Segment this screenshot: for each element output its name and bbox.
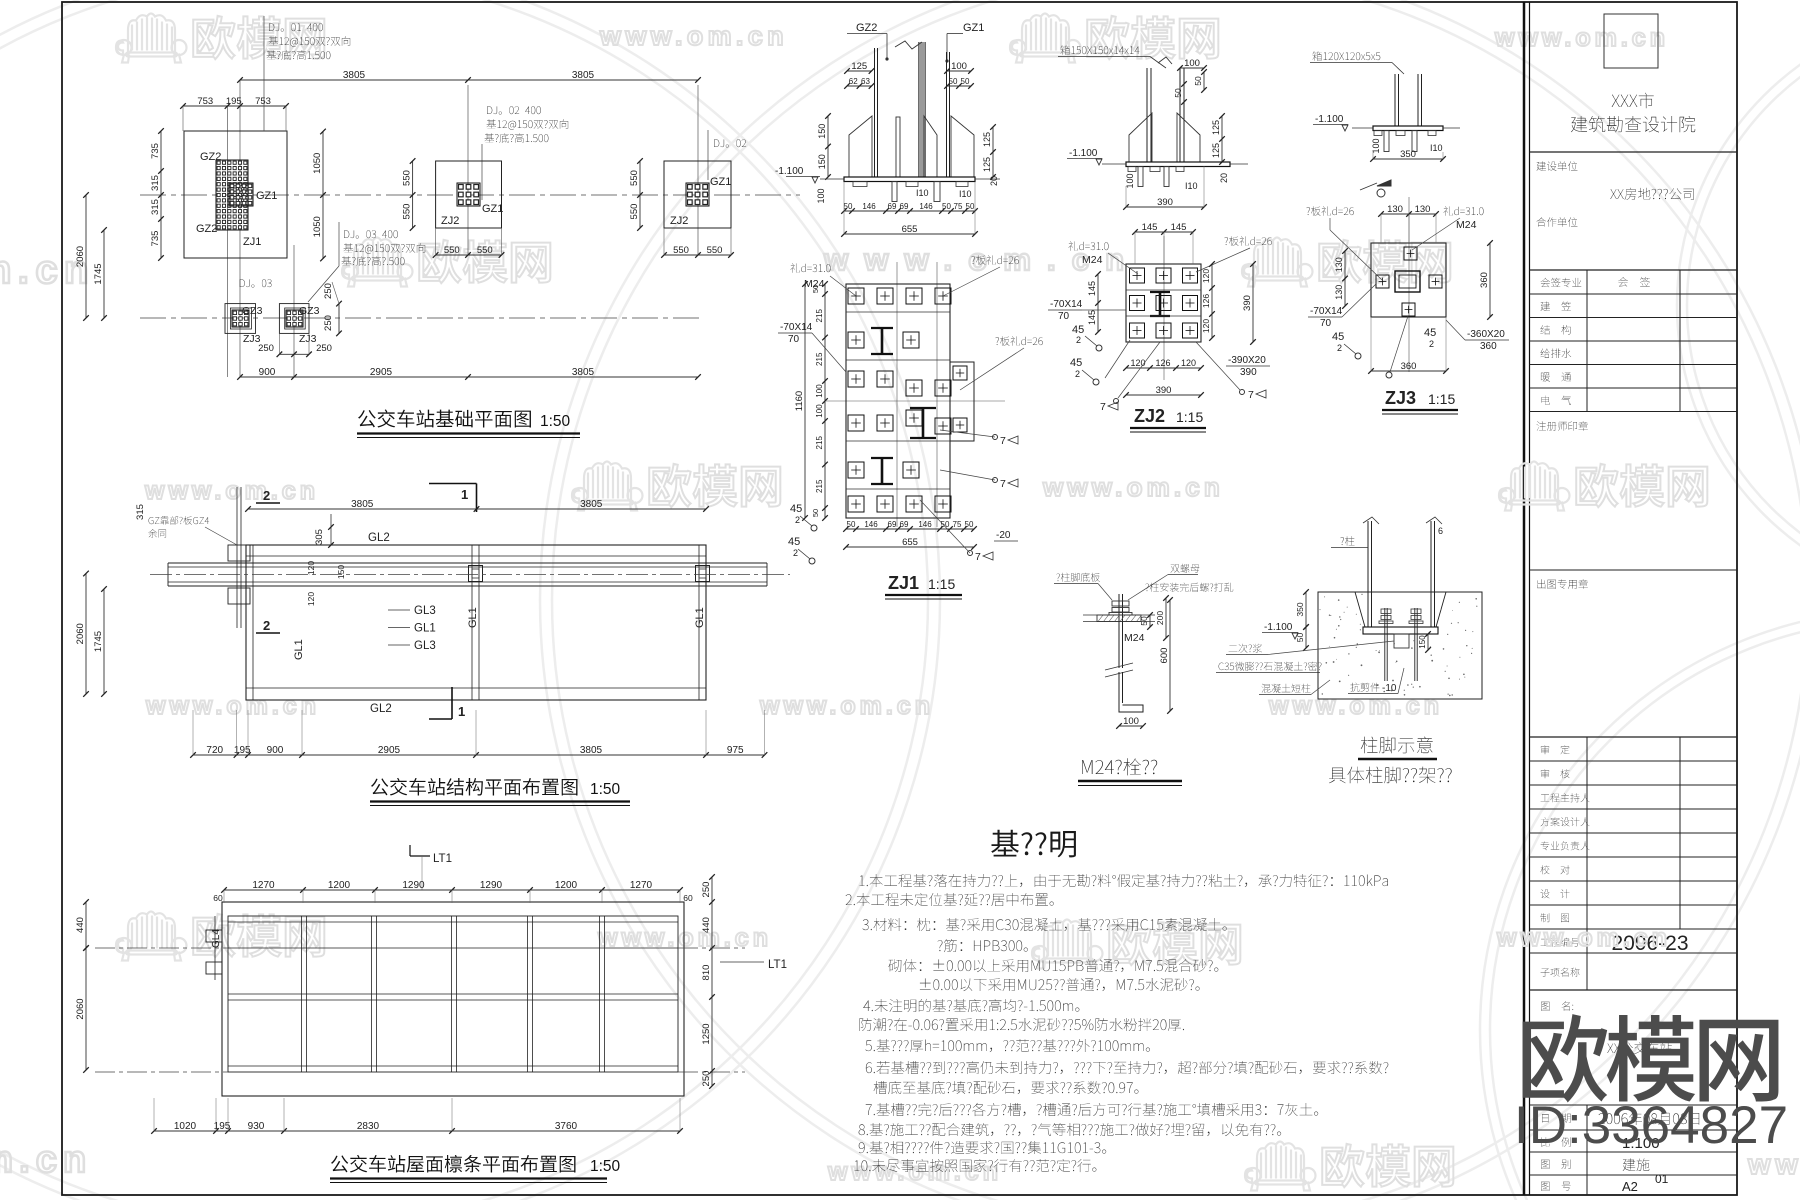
column shafts elevation2	[1146, 68, 1148, 162]
svg-text:www.om.cn: www.om.cn	[144, 477, 319, 505]
dim 350 ZJ3	[1373, 158, 1443, 160]
svg-text:2060: 2060	[75, 998, 86, 1019]
svg-text:130: 130	[1334, 257, 1344, 272]
svg-text:146: 146	[864, 520, 878, 529]
stiffener plates elevation1	[849, 116, 872, 177]
svg-text:735: 735	[150, 231, 161, 247]
svg-text:GL1: GL1	[694, 607, 706, 628]
foundation plan axis line horizontal main	[140, 194, 800, 196]
watermark logo mid-left	[572, 462, 643, 511]
svg-text:45: 45	[790, 503, 802, 515]
main GL beam strip	[168, 562, 767, 564]
svg-text:3805: 3805	[572, 70, 595, 81]
svg-text:50: 50	[942, 202, 951, 211]
note line 4	[938, 939, 1028, 952]
foundation pad ZJ3 left	[225, 304, 256, 334]
ZJ1 axis lines	[896, 262, 898, 527]
svg-text:-1.100: -1.100	[1315, 114, 1344, 125]
svg-text:7: 7	[1000, 435, 1006, 447]
svg-text:50: 50	[965, 520, 974, 529]
svg-text:550: 550	[707, 245, 723, 256]
subproject row	[1541, 968, 1580, 977]
approval rows	[1530, 760, 1738, 762]
svg-text:2: 2	[263, 488, 270, 503]
base plate ZJ3 elevation	[1373, 126, 1443, 131]
svg-text:1: 1	[461, 487, 468, 502]
rod lower part and foot	[1118, 672, 1120, 705]
foundation title underline	[357, 432, 580, 434]
svg-text:390: 390	[1240, 367, 1257, 378]
svg-text:195: 195	[226, 96, 242, 107]
svg-text:-10: -10	[1382, 683, 1397, 694]
svg-text:100: 100	[815, 404, 824, 418]
grout pocket	[1394, 634, 1409, 648]
svg-text:1050: 1050	[312, 153, 323, 174]
subtitle 具体柱脚	[1329, 767, 1452, 784]
concrete footing block	[1318, 592, 1482, 699]
svg-text:70: 70	[788, 334, 800, 345]
svg-text:45: 45	[788, 536, 800, 548]
svg-text:145: 145	[1142, 222, 1158, 233]
note line 5	[888, 959, 1218, 972]
dim 753 195 753	[183, 105, 286, 107]
svg-text:69: 69	[888, 202, 897, 211]
svg-text:735: 735	[150, 143, 161, 159]
svg-text:60: 60	[213, 893, 223, 903]
foundation pad ZJ2 middle	[436, 161, 502, 228]
drawing name row	[1541, 1001, 1573, 1010]
svg-text:120: 120	[1201, 319, 1211, 333]
note line 11	[874, 1081, 1139, 1094]
svg-text:3805: 3805	[343, 70, 366, 81]
svg-text:75: 75	[953, 520, 962, 529]
svg-text:7: 7	[1248, 389, 1254, 401]
LT1 top label	[410, 855, 430, 857]
svg-text:www.om.cn: www.om.cn	[599, 21, 788, 51]
label 二次灌浆	[1229, 644, 1262, 653]
svg-text:1160: 1160	[794, 391, 805, 411]
svg-text:GZ1: GZ1	[482, 203, 503, 215]
svg-text:1270: 1270	[630, 880, 653, 891]
svg-text:1:15: 1:15	[1428, 391, 1455, 407]
svg-text:A2: A2	[1622, 1179, 1638, 1194]
svg-text:2: 2	[1429, 339, 1434, 349]
svg-text:GL1: GL1	[293, 639, 305, 660]
svg-text:550: 550	[629, 204, 640, 220]
svg-text:50: 50	[1193, 76, 1203, 86]
svg-text:810: 810	[701, 965, 712, 981]
dim 550 550 left of right pad	[639, 161, 641, 228]
ZJ1 1160 dim	[804, 284, 806, 518]
watermark logo top-left	[116, 14, 187, 63]
svg-text:3805: 3805	[580, 499, 603, 510]
svg-text:GZ2: GZ2	[196, 223, 217, 235]
ZJ3 bottom dim 360	[1371, 370, 1446, 372]
dim 550 550 left of mid pad	[412, 161, 414, 228]
column shafts elevation1	[874, 48, 876, 177]
purlin right dims	[711, 877, 713, 1086]
svg-text:125: 125	[982, 157, 992, 172]
note line 13	[859, 1123, 1282, 1136]
svg-text:315: 315	[150, 175, 161, 191]
svg-text:146: 146	[919, 202, 933, 211]
svg-text:M24: M24	[1456, 219, 1477, 231]
svg-text:930: 930	[248, 1121, 265, 1132]
svg-text:1745: 1745	[93, 263, 104, 284]
note line 12	[866, 1103, 1318, 1116]
svg-text:ZJ2: ZJ2	[441, 215, 459, 227]
text block DJ02 400	[487, 106, 541, 114]
svg-text:215: 215	[815, 309, 824, 323]
dim 100 foot	[1119, 725, 1143, 727]
svg-text:GL2: GL2	[368, 532, 390, 544]
svg-text:550: 550	[477, 245, 493, 256]
svg-text:1050: 1050	[312, 216, 323, 237]
svg-text:145: 145	[1087, 281, 1097, 296]
svg-text:550: 550	[402, 170, 413, 186]
svg-text:1: 1	[458, 704, 465, 719]
svg-text:-70X14: -70X14	[1310, 306, 1343, 317]
title block divider double line	[1523, 2, 1526, 1195]
svg-text:50: 50	[1295, 633, 1305, 643]
purlin axis dashes	[95, 947, 228, 949]
label 柱	[1340, 536, 1354, 545]
svg-text:20: 20	[989, 176, 999, 186]
svg-text:1:50: 1:50	[540, 413, 571, 430]
steel column shafts	[1367, 521, 1369, 627]
svg-text:ZJ2: ZJ2	[670, 215, 688, 227]
watermark logo left-lower	[116, 912, 187, 961]
svg-text:1:50: 1:50	[590, 781, 621, 798]
svg-text:900: 900	[259, 367, 276, 378]
svg-text:125: 125	[1211, 120, 1221, 135]
svg-text:www.om.cn: www.om.cn	[1268, 692, 1443, 720]
ZJ3 leader to bottom bolt	[1390, 316, 1408, 372]
bolts ZJ3 elevation	[1384, 131, 1389, 152]
svg-text:7: 7	[1000, 478, 1006, 490]
svg-text:GZ1: GZ1	[256, 190, 277, 202]
svg-text:2060: 2060	[75, 623, 86, 644]
svg-text:50: 50	[811, 509, 820, 517]
purlin title underline	[330, 1177, 607, 1179]
dim 150 150 left	[827, 116, 829, 177]
svg-text:-70X14: -70X14	[1050, 299, 1083, 310]
svg-text:100: 100	[1125, 173, 1135, 188]
svg-text:350: 350	[1400, 149, 1416, 160]
svg-text:50: 50	[847, 520, 856, 529]
svg-text:GL2: GL2	[370, 703, 392, 715]
svg-text:75: 75	[954, 202, 963, 211]
ZJ2 right dims	[1211, 264, 1213, 338]
watermark logo row2-right	[1242, 238, 1313, 287]
svg-text:www.om.cn: www.om.cn	[1042, 472, 1224, 502]
strip column connection plates	[469, 566, 483, 582]
svg-text:215: 215	[815, 436, 824, 450]
ZJ3 axis line	[1408, 197, 1410, 372]
label C35微膨胀石混凝土密实	[1219, 662, 1322, 671]
note line 7	[863, 999, 1079, 1012]
svg-text:350: 350	[1295, 602, 1305, 616]
ZJ3 texts	[1306, 206, 1353, 215]
structure plan outer rect	[246, 545, 706, 700]
svg-text:-1.100: -1.100	[775, 166, 804, 177]
svg-text:130: 130	[1334, 285, 1344, 300]
svg-text:ZJ2: ZJ2	[1134, 406, 1165, 426]
svg-text:250: 250	[323, 315, 334, 331]
leader DJ03	[338, 222, 340, 266]
GZ2/GZ1 column cluster in ZJ1	[216, 160, 248, 230]
ZJ3 top dim 130 130	[1381, 213, 1436, 215]
ZJ1 base plate outline	[846, 284, 950, 518]
foundation far left dims 2060 1745	[85, 195, 87, 318]
svg-text:63: 63	[861, 77, 870, 86]
foundation title 公交车站基础平面图	[358, 409, 531, 427]
dim 390 elevation2	[1126, 206, 1204, 208]
svg-text:50: 50	[1173, 88, 1183, 98]
watermark logo bottom-right	[1245, 1142, 1316, 1191]
note line 1	[859, 874, 1387, 887]
M24 title	[1082, 758, 1157, 775]
dim 655	[844, 233, 975, 235]
bolts elevation2	[1138, 167, 1143, 187]
svg-text:www.om.cn: www.om.cn	[759, 692, 934, 720]
ZJ3 right dim 360	[1489, 243, 1491, 317]
svg-text:7: 7	[1100, 401, 1106, 413]
GL4 bracket	[206, 930, 222, 942]
svg-text:315: 315	[135, 504, 146, 520]
leader GZ2	[847, 33, 887, 35]
foundation plan axis line ZJ3 row	[140, 317, 700, 319]
svg-text:126: 126	[1155, 358, 1170, 368]
structure top dim 3805 3805	[248, 508, 706, 510]
svg-text:130: 130	[1415, 204, 1431, 215]
svg-text:3805: 3805	[580, 745, 603, 756]
svg-text:6: 6	[1438, 526, 1443, 536]
svg-text:150: 150	[817, 124, 827, 139]
label 混凝土短柱	[1262, 684, 1311, 693]
purlin plan outer rect	[222, 902, 684, 1096]
base plate elevation1	[844, 177, 975, 182]
svg-text:100: 100	[951, 61, 967, 72]
beam strip centerline	[150, 574, 790, 576]
dims 100 50 50 elevation2	[1180, 67, 1204, 69]
project number row	[1541, 938, 1580, 947]
svg-text:655: 655	[902, 537, 918, 548]
svg-text:100: 100	[1123, 716, 1139, 727]
svg-text:I10: I10	[916, 188, 929, 198]
svg-text:50: 50	[1139, 616, 1149, 626]
leader DJ01	[263, 16, 265, 131]
section marker 1 lower	[451, 687, 453, 719]
svg-text:120: 120	[306, 561, 316, 575]
svg-text:753: 753	[197, 96, 213, 107]
purlin inner frame	[228, 916, 678, 1072]
svg-text:1270: 1270	[252, 880, 275, 891]
svg-text:45: 45	[1070, 357, 1082, 369]
foundation pad ZJ2 right	[664, 161, 731, 228]
title block 合作单位 row	[1537, 217, 1578, 226]
ZJ1 anchor squares	[848, 288, 864, 304]
svg-text:1:15: 1:15	[928, 576, 955, 592]
svg-text:2830: 2830	[357, 1121, 380, 1132]
svg-text:GZ1: GZ1	[710, 176, 731, 188]
leader GZ1	[947, 33, 963, 35]
svg-text:70: 70	[1058, 311, 1070, 322]
svg-text:3805: 3805	[572, 367, 595, 378]
label 抗剪件-10	[1350, 683, 1379, 692]
label 柱脚底板	[1056, 573, 1099, 582]
svg-text:GZ2: GZ2	[856, 22, 877, 34]
svg-text:-20: -20	[996, 530, 1011, 541]
ZJ1 leaders and small texts	[790, 263, 830, 272]
svg-text:GZ3: GZ3	[242, 305, 263, 317]
ZJ2 inner seams	[1126, 289, 1201, 291]
svg-text:50: 50	[844, 202, 853, 211]
svg-text:20: 20	[1219, 173, 1229, 183]
svg-text:1290: 1290	[480, 880, 503, 891]
note line 15	[854, 1159, 1096, 1172]
dim 550 550 below right pad	[664, 254, 731, 256]
svg-text:390: 390	[1156, 385, 1172, 396]
dims 50 200	[1149, 615, 1151, 627]
ZJ2 left dim 145 145	[1097, 274, 1099, 332]
svg-text:600: 600	[1159, 648, 1170, 664]
svg-text:100: 100	[815, 384, 824, 398]
svg-text:GL3: GL3	[414, 605, 436, 617]
GZ4 note	[149, 516, 210, 525]
svg-text:2060: 2060	[75, 246, 86, 267]
svg-text:655: 655	[902, 224, 918, 235]
svg-text:GZ2: GZ2	[200, 151, 221, 163]
labels GL3 GL1 GL3 stack	[388, 609, 410, 611]
svg-text:550: 550	[629, 170, 640, 186]
svg-text:69: 69	[900, 520, 909, 529]
purlin horizontal members	[228, 921, 678, 923]
svg-text:3805: 3805	[351, 499, 374, 510]
svg-text:GZ3: GZ3	[299, 305, 320, 317]
svg-text:62: 62	[849, 77, 858, 86]
dims 100 / 50 50	[947, 70, 971, 72]
svg-text:1020: 1020	[174, 1121, 197, 1132]
date scale rows	[1542, 1113, 1571, 1122]
label 安装完后螺栓打乱	[1145, 583, 1233, 592]
svg-text:1:15: 1:15	[1176, 409, 1203, 425]
svg-text:50: 50	[966, 202, 975, 211]
ZJ2 I beam symbol	[1150, 291, 1170, 293]
svg-text:www.om.cn: www.om.cn	[1496, 924, 1671, 952]
ZJ1 I-beam symbols	[871, 327, 893, 329]
svg-text:2: 2	[795, 515, 800, 525]
purlin left dims	[85, 902, 87, 948]
ZJ1 left dim chain	[824, 284, 826, 518]
ZJ2 bottom dims	[1126, 367, 1201, 369]
signature table	[1530, 293, 1738, 295]
column shafts ZJ3 elevation	[1394, 74, 1396, 126]
svg-text:60: 60	[683, 893, 693, 903]
svg-text:GL3: GL3	[414, 640, 436, 652]
svg-text:om.cn: om.cn	[0, 1139, 92, 1181]
svg-text:I10: I10	[1185, 181, 1198, 191]
svg-text:900: 900	[267, 745, 284, 756]
note line 3	[862, 918, 1226, 931]
note line 9	[865, 1039, 1150, 1052]
svg-text:2905: 2905	[378, 745, 401, 756]
chop area label	[1537, 579, 1588, 589]
text block DJ03 400	[344, 230, 398, 238]
svg-text:100: 100	[1371, 138, 1381, 153]
note line 14	[859, 1141, 1106, 1154]
svg-text:146: 146	[918, 520, 932, 529]
label 双螺母	[1171, 564, 1200, 573]
svg-text:LT1: LT1	[433, 853, 452, 865]
svg-text:305: 305	[314, 529, 325, 545]
svg-text:125: 125	[1211, 143, 1221, 158]
svg-text:-70X14: -70X14	[780, 322, 813, 333]
base plate schematic	[1363, 627, 1438, 634]
title block 建设单位 row	[1537, 161, 1578, 171]
svg-text:215: 215	[815, 479, 824, 493]
svg-text:GL1: GL1	[414, 623, 436, 635]
break symbol	[895, 41, 922, 49]
foundation pad ZJ1	[184, 131, 287, 258]
svg-text:130: 130	[1387, 204, 1403, 215]
svg-text:120: 120	[306, 592, 316, 606]
svg-text:2: 2	[1075, 369, 1080, 379]
dim 250 250 right of ZJ3	[338, 304, 340, 334]
label DJ02 right	[714, 139, 746, 147]
svg-text:440: 440	[75, 917, 86, 933]
svg-text:ZJ3: ZJ3	[299, 333, 317, 345]
svg-text:250: 250	[316, 343, 332, 354]
svg-text:50: 50	[961, 77, 970, 86]
dims 125 125 elevation2	[1221, 116, 1223, 162]
svg-text:360: 360	[1401, 361, 1417, 372]
svg-text:146: 146	[862, 202, 876, 211]
ZJ2 base plate	[1126, 264, 1201, 342]
GL1 column verticals	[252, 545, 254, 700]
svg-text:ID:3364827: ID:3364827	[1514, 1096, 1788, 1155]
svg-text:125: 125	[982, 132, 992, 147]
svg-text:45: 45	[1332, 331, 1344, 343]
note line 8	[859, 1018, 1184, 1031]
ZJ2 anchor squares 3x3	[1130, 268, 1145, 283]
svg-text:200: 200	[1155, 611, 1165, 625]
dim 125 125 right	[992, 127, 994, 177]
svg-text:120: 120	[1130, 358, 1145, 368]
svg-text:GL1: GL1	[467, 607, 479, 628]
svg-text:-1.100: -1.100	[1264, 622, 1293, 633]
purlin title 公交车站屋面檩条平面布置图	[331, 1155, 576, 1173]
svg-text:150: 150	[336, 565, 346, 579]
svg-text:3760: 3760	[555, 1121, 578, 1132]
svg-text:250: 250	[701, 1071, 712, 1087]
svg-text:215: 215	[815, 352, 824, 366]
svg-text:126: 126	[1201, 294, 1211, 308]
label DJ03 standalone	[240, 279, 272, 287]
svg-text:120: 120	[1181, 358, 1196, 368]
svg-text:1:50: 1:50	[590, 1158, 621, 1175]
svg-text:70: 70	[1320, 318, 1332, 329]
registration stamp label	[1537, 421, 1588, 431]
dims 125 / 62 63	[847, 70, 872, 72]
ZJ2 axis line	[1163, 236, 1165, 380]
svg-text:69: 69	[888, 520, 897, 529]
svg-text:I10: I10	[1430, 143, 1443, 153]
svg-text:100: 100	[816, 188, 826, 203]
ZJ2 top dim 145 145	[1135, 231, 1193, 233]
svg-text:-1.100: -1.100	[1069, 148, 1098, 159]
svg-text:www.om.cn: www.om.cn	[827, 1158, 1002, 1186]
